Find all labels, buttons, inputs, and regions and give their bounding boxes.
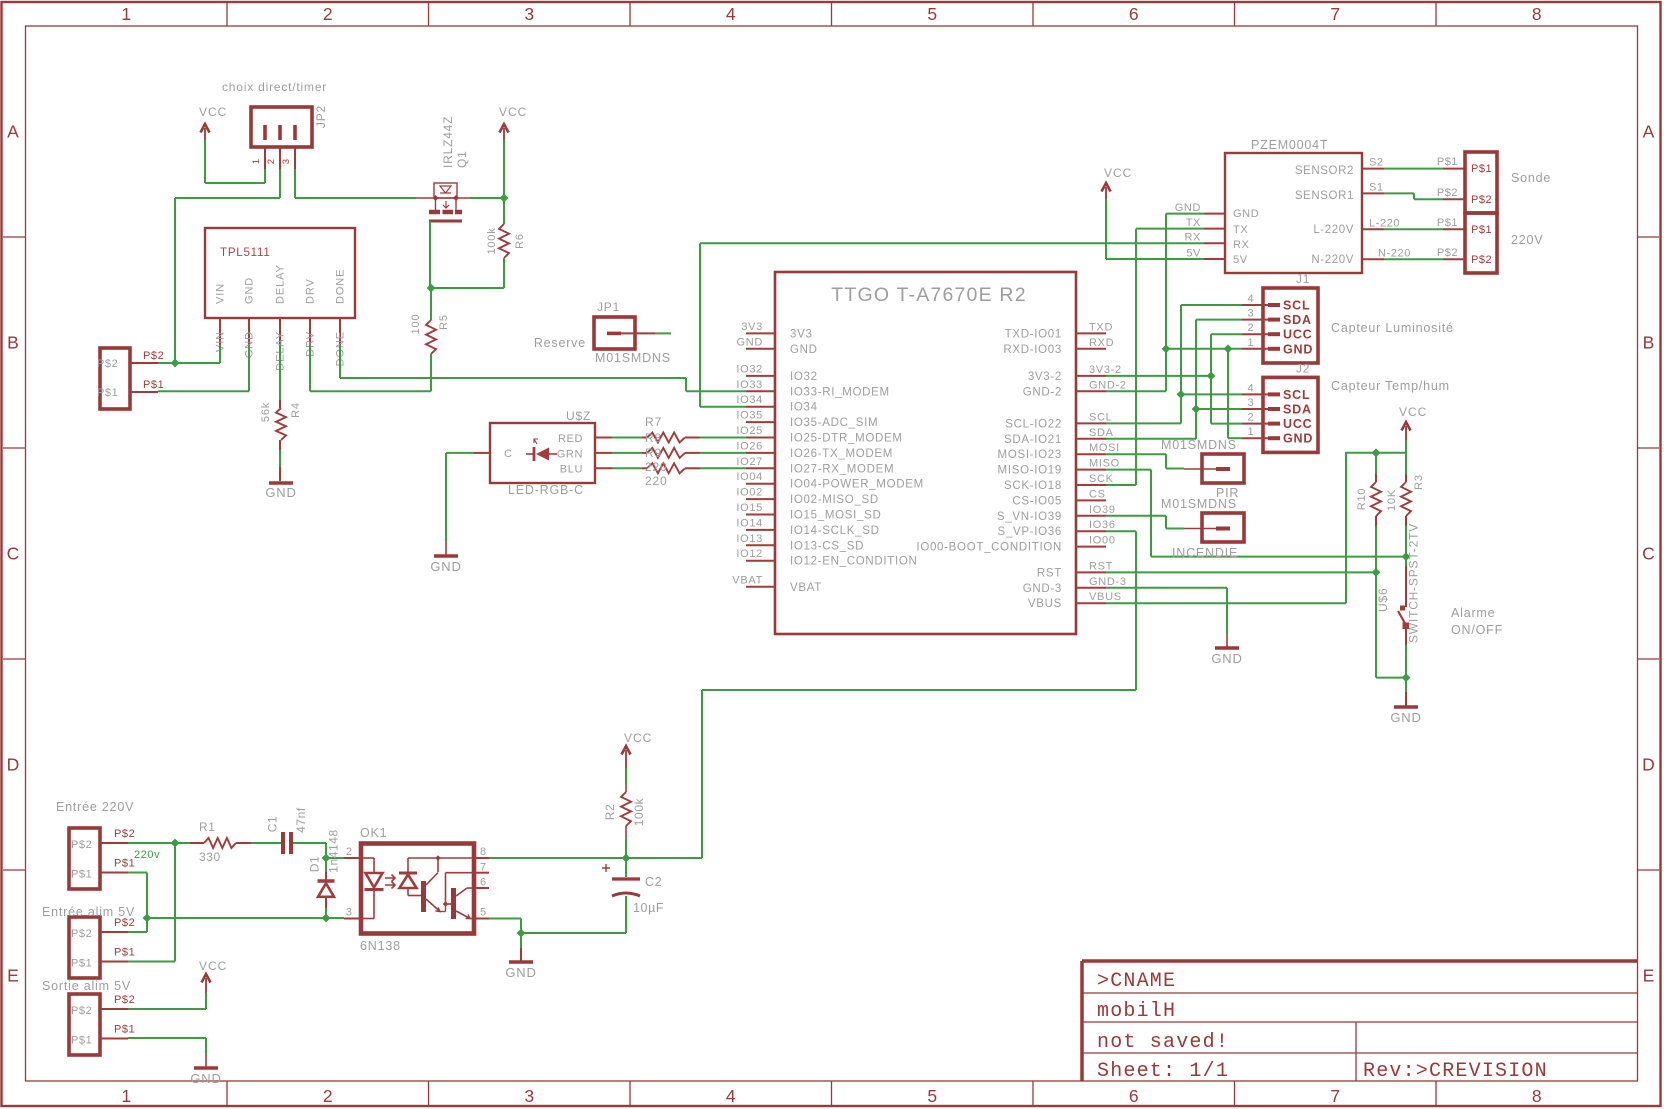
svg-text:1n4148: 1n4148 [327, 829, 341, 873]
svg-text:R6: R6 [514, 233, 526, 249]
svg-text:RED: RED [558, 433, 583, 445]
svg-text:P$1: P$1 [143, 379, 164, 391]
svg-text:UCC: UCC [1283, 417, 1312, 431]
svg-text:220v: 220v [134, 849, 160, 861]
svg-text:TX: TX [1233, 224, 1248, 236]
svg-text:IO33: IO33 [736, 379, 763, 391]
svg-text:IO15: IO15 [736, 502, 763, 514]
svg-text:P$2: P$2 [114, 828, 135, 840]
svg-text:GND: GND [265, 485, 296, 500]
svg-text:MISO: MISO [1089, 458, 1120, 470]
svg-text:6: 6 [1129, 4, 1139, 24]
svg-text:RX: RX [1233, 239, 1250, 251]
svg-text:SDA: SDA [1283, 403, 1312, 417]
svg-text:GND: GND [1283, 432, 1313, 446]
svg-text:P$1: P$1 [114, 858, 135, 870]
svg-text:Sortie alim 5V: Sortie alim 5V [42, 979, 131, 993]
svg-text:L-220V: L-220V [1313, 224, 1354, 236]
svg-text:CS-IO05: CS-IO05 [1012, 495, 1062, 507]
svg-text:CS: CS [1089, 488, 1106, 500]
svg-text:3V3: 3V3 [741, 321, 763, 333]
svg-text:IO02: IO02 [736, 487, 763, 499]
svg-text:C: C [1642, 544, 1655, 564]
svg-text:220: 220 [645, 474, 667, 488]
svg-text:1: 1 [121, 1086, 131, 1106]
svg-text:R5: R5 [438, 314, 450, 330]
svg-text:TXD-IO01: TXD-IO01 [1005, 328, 1062, 340]
svg-text:IO13-CS_SD: IO13-CS_SD [790, 540, 864, 552]
svg-text:PZEM0004T: PZEM0004T [1251, 138, 1328, 152]
svg-text:P$2: P$2 [1471, 194, 1492, 206]
svg-text:TTGO T-A7670E R2: TTGO T-A7670E R2 [831, 284, 1027, 306]
svg-text:INCENDIE: INCENDIE [1172, 546, 1238, 560]
svg-text:8: 8 [480, 846, 486, 858]
svg-text:M01SMDNS: M01SMDNS [1161, 497, 1237, 511]
svg-text:IO39: IO39 [1089, 504, 1116, 516]
svg-text:IO32: IO32 [790, 371, 818, 383]
svg-text:GND: GND [1211, 651, 1242, 666]
svg-text:IO36: IO36 [1089, 519, 1116, 531]
svg-text:S2: S2 [1369, 157, 1384, 169]
svg-text:P$1: P$1 [71, 869, 92, 881]
svg-text:SCL: SCL [1283, 299, 1310, 313]
svg-text:7: 7 [1330, 1086, 1340, 1106]
svg-text:MISO-IO19: MISO-IO19 [998, 465, 1062, 477]
svg-text:3: 3 [524, 4, 534, 24]
svg-text:3: 3 [346, 907, 352, 919]
svg-text:GND-2: GND-2 [1089, 379, 1127, 391]
svg-text:SCL: SCL [1283, 388, 1310, 402]
svg-text:LED-RGB-C: LED-RGB-C [508, 483, 584, 497]
svg-text:VBUS: VBUS [1028, 598, 1062, 610]
svg-text:IO04: IO04 [736, 471, 763, 483]
svg-text:2: 2 [323, 4, 333, 24]
svg-text:GND: GND [1233, 208, 1259, 220]
svg-text:M01SMDNS: M01SMDNS [595, 351, 671, 365]
svg-text:UCC: UCC [1283, 328, 1312, 342]
svg-text:1: 1 [121, 4, 131, 24]
svg-text:P$1: P$1 [1471, 163, 1492, 175]
svg-text:C2: C2 [645, 875, 662, 889]
svg-text:Sheet: 1/1: Sheet: 1/1 [1097, 1060, 1229, 1083]
svg-text:Q1: Q1 [455, 150, 469, 168]
svg-text:P$1: P$1 [114, 1024, 135, 1036]
svg-text:1: 1 [1247, 337, 1254, 349]
svg-text:10µF: 10µF [633, 901, 664, 915]
svg-text:IO14: IO14 [736, 517, 763, 529]
svg-text:Entrée alim 5V: Entrée alim 5V [42, 905, 135, 919]
svg-text:GND-3: GND-3 [1089, 576, 1127, 588]
svg-text:7: 7 [1330, 4, 1340, 24]
svg-text:C1: C1 [266, 816, 280, 833]
svg-text:VBAT: VBAT [732, 574, 763, 586]
svg-text:JP2: JP2 [314, 105, 328, 128]
svg-text:4: 4 [1247, 293, 1254, 305]
svg-text:IO35-ADC_SIM: IO35-ADC_SIM [790, 417, 878, 429]
svg-text:330: 330 [199, 850, 221, 864]
svg-text:JP1: JP1 [597, 300, 620, 314]
svg-text:Alarme: Alarme [1451, 606, 1495, 620]
svg-text:SCL-IO22: SCL-IO22 [1005, 418, 1062, 430]
svg-text:RXD: RXD [1089, 337, 1114, 349]
svg-text:IO25-DTR_MODEM: IO25-DTR_MODEM [790, 433, 903, 445]
svg-text:GND: GND [1390, 710, 1421, 725]
svg-text:TX: TX [1186, 217, 1201, 229]
svg-text:P$2: P$2 [114, 994, 135, 1006]
svg-text:DONE: DONE [335, 269, 347, 304]
svg-text:100k: 100k [486, 227, 498, 254]
svg-text:D1: D1 [308, 856, 322, 873]
svg-text:L-220: L-220 [1369, 217, 1400, 229]
svg-text:SENSOR1: SENSOR1 [1295, 190, 1354, 202]
svg-text:GND: GND [736, 336, 763, 348]
svg-text:5V: 5V [1186, 248, 1201, 260]
svg-text:3: 3 [1247, 397, 1254, 409]
svg-text:TPL5111: TPL5111 [220, 247, 271, 259]
svg-text:IO35: IO35 [736, 410, 763, 422]
svg-text:8: 8 [1532, 4, 1542, 24]
svg-text:2: 2 [1247, 322, 1254, 334]
svg-text:VCC: VCC [1104, 166, 1132, 180]
svg-text:GND: GND [1175, 202, 1201, 214]
svg-text:Entrée 220V: Entrée 220V [56, 800, 134, 814]
svg-text:>CNAME: >CNAME [1097, 970, 1176, 993]
svg-text:7: 7 [480, 862, 486, 874]
svg-text:6: 6 [480, 877, 486, 889]
svg-text:10K: 10K [1386, 489, 1398, 511]
svg-text:S_VP-IO36: S_VP-IO36 [998, 526, 1062, 538]
svg-text:P$2: P$2 [71, 839, 92, 851]
svg-text:VCC: VCC [199, 105, 227, 119]
svg-text:IO33-RI_MODEM: IO33-RI_MODEM [790, 386, 890, 398]
svg-text:GND-3: GND-3 [1023, 583, 1062, 595]
svg-text:RXD-IO03: RXD-IO03 [1003, 344, 1062, 356]
svg-text:IO02-MISO_SD: IO02-MISO_SD [790, 494, 879, 506]
svg-text:R10: R10 [1356, 488, 1368, 511]
svg-text:Rev:>CREVISION: Rev:>CREVISION [1363, 1060, 1548, 1083]
svg-text:IO13: IO13 [736, 533, 763, 545]
svg-text:P$1: P$1 [71, 1035, 92, 1047]
svg-text:5: 5 [480, 907, 486, 919]
svg-text:IO12-EN_CONDITION: IO12-EN_CONDITION [790, 556, 918, 568]
svg-text:VCC: VCC [499, 105, 527, 119]
svg-text:SDA: SDA [1089, 427, 1114, 439]
svg-text:3: 3 [281, 159, 292, 164]
svg-text:P$2: P$2 [97, 358, 118, 370]
svg-text:220V: 220V [1511, 233, 1543, 247]
svg-text:220: 220 [645, 460, 667, 474]
svg-text:J1: J1 [1296, 272, 1310, 286]
svg-text:J2: J2 [1296, 361, 1310, 375]
svg-text:TXD: TXD [1089, 321, 1113, 333]
svg-text:4: 4 [726, 1086, 736, 1106]
svg-text:E: E [7, 966, 19, 986]
svg-text:N-220V: N-220V [1311, 254, 1354, 266]
svg-text:P$1: P$1 [114, 947, 135, 959]
svg-text:6N138: 6N138 [360, 939, 401, 953]
svg-text:D: D [7, 755, 20, 775]
svg-text:IO14-SCLK_SD: IO14-SCLK_SD [790, 525, 880, 537]
svg-text:P$2: P$2 [1437, 247, 1458, 259]
svg-text:VIN: VIN [215, 283, 227, 304]
svg-text:IO34: IO34 [736, 394, 763, 406]
svg-text:IO25: IO25 [736, 425, 763, 437]
svg-text:3: 3 [1247, 308, 1254, 320]
svg-text:C: C [7, 544, 20, 564]
svg-text:P$1: P$1 [1437, 217, 1458, 229]
svg-text:8: 8 [1532, 1086, 1542, 1106]
svg-text:GND: GND [790, 344, 818, 356]
svg-text:Sonde: Sonde [1511, 171, 1551, 185]
svg-text:GND-2: GND-2 [1023, 386, 1062, 398]
svg-text:IO27: IO27 [736, 456, 763, 468]
svg-text:DELAY: DELAY [275, 264, 287, 304]
svg-text:4: 4 [726, 4, 736, 24]
svg-text:IO34: IO34 [790, 402, 818, 414]
svg-text:A: A [1643, 122, 1655, 142]
svg-text:DRV: DRV [305, 278, 317, 304]
svg-text:VCC: VCC [1399, 405, 1427, 419]
svg-text:A: A [7, 122, 19, 142]
svg-text:IO26-TX_MODEM: IO26-TX_MODEM [790, 448, 893, 460]
svg-text:SCK: SCK [1089, 473, 1114, 485]
svg-text:GND: GND [430, 559, 461, 574]
svg-text:3V3-2: 3V3-2 [1089, 364, 1122, 376]
svg-text:3V3: 3V3 [790, 328, 813, 340]
svg-text:RST: RST [1089, 560, 1113, 572]
svg-text:BLU: BLU [560, 464, 583, 476]
svg-text:IO04-POWER_MODEM: IO04-POWER_MODEM [790, 479, 924, 491]
svg-text:R8: R8 [645, 431, 662, 445]
svg-text:IO27-RX_MODEM: IO27-RX_MODEM [790, 463, 894, 475]
svg-text:VCC: VCC [624, 731, 652, 745]
svg-text:MOSI: MOSI [1089, 442, 1120, 454]
svg-text:56k: 56k [260, 402, 272, 422]
svg-text:S_VN-IO39: S_VN-IO39 [997, 511, 1062, 523]
svg-text:P$1: P$1 [1471, 224, 1492, 236]
svg-text:P$1: P$1 [1437, 156, 1458, 168]
svg-text:R4: R4 [290, 402, 302, 418]
svg-text:IO12: IO12 [736, 548, 763, 560]
svg-text:B: B [7, 333, 19, 353]
svg-text:S1: S1 [1369, 181, 1384, 193]
svg-text:P$2: P$2 [1471, 254, 1492, 266]
svg-text:4: 4 [1247, 382, 1254, 394]
svg-text:Reserve: Reserve [534, 336, 586, 350]
svg-text:R3: R3 [1413, 474, 1425, 490]
svg-text:IO32: IO32 [736, 363, 763, 375]
svg-text:RX: RX [1185, 232, 1202, 244]
svg-text:5: 5 [927, 1086, 937, 1106]
svg-text:P$1: P$1 [71, 958, 92, 970]
svg-text:VBUS: VBUS [1089, 591, 1122, 603]
svg-text:GND: GND [1283, 342, 1313, 356]
svg-text:RST: RST [1037, 567, 1062, 579]
svg-text:Capteur Temp/hum: Capteur Temp/hum [1331, 379, 1450, 393]
svg-text:ON/OFF: ON/OFF [1451, 623, 1503, 637]
svg-text:R9: R9 [645, 446, 662, 460]
svg-text:SCK-IO18: SCK-IO18 [1004, 480, 1062, 492]
svg-text:C: C [504, 448, 513, 460]
svg-text:IO26: IO26 [736, 440, 763, 452]
svg-text:IO15_MOSI_SD: IO15_MOSI_SD [790, 510, 882, 522]
svg-text:IO00-BOOT_CONDITION: IO00-BOOT_CONDITION [916, 542, 1062, 554]
svg-text:6: 6 [1129, 1086, 1139, 1106]
svg-text:VBAT: VBAT [790, 582, 822, 594]
svg-text:100: 100 [410, 314, 422, 335]
svg-text:2: 2 [266, 159, 277, 164]
svg-text:MOSI-IO23: MOSI-IO23 [998, 449, 1062, 461]
svg-text:3: 3 [524, 1086, 534, 1106]
svg-text:100k: 100k [632, 797, 646, 826]
svg-text:N-220: N-220 [1378, 247, 1411, 259]
svg-text:1: 1 [1247, 426, 1254, 438]
svg-text:5: 5 [927, 4, 937, 24]
svg-text:P$2: P$2 [71, 928, 92, 940]
svg-text:1: 1 [251, 159, 262, 164]
svg-text:mobilH: mobilH [1097, 1000, 1176, 1023]
svg-text:Capteur Luminosité: Capteur Luminosité [1331, 321, 1454, 335]
svg-text:P$2: P$2 [1437, 187, 1458, 199]
svg-text:SCL: SCL [1089, 411, 1113, 423]
svg-text:B: B [1643, 333, 1655, 353]
svg-text:47nf: 47nf [294, 807, 308, 833]
svg-text:OK1: OK1 [360, 826, 387, 840]
svg-text:R1: R1 [199, 820, 216, 834]
svg-text:IO00: IO00 [1089, 535, 1116, 547]
svg-text:GND: GND [505, 965, 536, 980]
svg-text:M01SMDNS: M01SMDNS [1161, 438, 1237, 452]
svg-text:SENSOR2: SENSOR2 [1295, 165, 1354, 177]
svg-text:GRN: GRN [557, 449, 583, 461]
svg-text:D: D [1642, 755, 1655, 775]
svg-text:2: 2 [323, 1086, 333, 1106]
svg-text:R2: R2 [603, 804, 617, 821]
svg-text:3V3-2: 3V3-2 [1028, 371, 1062, 383]
svg-text:SDA-IO21: SDA-IO21 [1004, 434, 1062, 446]
svg-text:P$1: P$1 [97, 387, 118, 399]
svg-text:SWITCH-SPST-2TV: SWITCH-SPST-2TV [1407, 523, 1421, 643]
svg-text:P$2: P$2 [143, 350, 164, 362]
svg-text:not saved!: not saved! [1097, 1031, 1229, 1054]
svg-text:2: 2 [1247, 412, 1254, 424]
svg-text:GND: GND [244, 277, 256, 304]
svg-text:VCC: VCC [199, 959, 227, 973]
svg-text:choix direct/timer: choix direct/timer [222, 80, 327, 94]
svg-text:5V: 5V [1233, 254, 1248, 266]
svg-text:E: E [1643, 966, 1655, 986]
svg-text:U$6: U$6 [1376, 588, 1390, 612]
svg-text:GND: GND [190, 1071, 221, 1086]
svg-text:U$Z: U$Z [566, 409, 591, 423]
svg-text:SDA: SDA [1283, 313, 1312, 327]
svg-text:IRLZ44Z: IRLZ44Z [441, 116, 455, 168]
svg-text:R7: R7 [645, 415, 662, 429]
svg-text:P$2: P$2 [71, 1005, 92, 1017]
svg-text:2: 2 [346, 846, 352, 858]
